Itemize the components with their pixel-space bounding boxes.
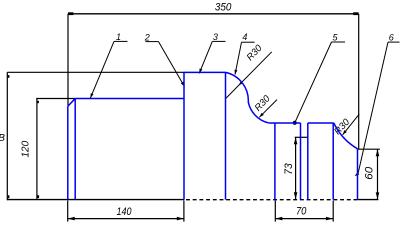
dimension 70 line (275, 218, 333, 220)
dimension 350 left tick (68, 12, 73, 15)
leader 3 line (199, 41, 212, 73)
svg-text:120: 120 (21, 140, 32, 157)
dimension 70 right arrow (326, 217, 333, 221)
dimension 60 top arrow (376, 149, 380, 156)
radius R30 third leader line (343, 114, 360, 135)
leader 3 arrow (199, 68, 202, 73)
dimension 140 left extension line (67, 201, 69, 222)
profile divider at first arc start (225, 72, 227, 199)
dimension 150 vertical line at left edge (6, 72, 8, 200)
svg-text:B: B (0, 133, 5, 144)
leader 1 shelf (114, 40, 128, 42)
svg-text:6: 6 (389, 32, 394, 42)
profile S-curve R30 arcs (226, 72, 269, 123)
radius R30 second label (253, 93, 273, 114)
dimension 150 top extension line (7, 71, 184, 73)
dimension 60 label (363, 166, 375, 180)
leader 6 line (358, 42, 388, 175)
profile divider at second arc start (332, 123, 334, 200)
leader 4 shelf (242, 41, 255, 43)
dimension 73 line (295, 137, 297, 199)
profile slot right wall (307, 123, 309, 200)
dimension 70 left arrow (275, 217, 282, 221)
svg-text:350: 350 (215, 1, 232, 13)
radius R30 second arrow (259, 113, 264, 118)
base line solid right under end block (358, 199, 379, 201)
svg-text:73: 73 (283, 162, 295, 174)
leader 1 line (90, 41, 114, 98)
svg-text:4: 4 (242, 32, 247, 42)
profile step 1 top surface (75, 98, 184, 100)
leader 4 arrow (235, 70, 238, 75)
svg-text:2: 2 (144, 33, 150, 43)
svg-text:1: 1 (116, 32, 121, 42)
profile step 2 top surface (184, 71, 226, 73)
dimension 60 line (377, 149, 379, 199)
base line solid left (7, 199, 184, 201)
leader 2 arrow (181, 82, 185, 87)
dimension 140 line (68, 218, 184, 220)
dimension 73 top arrow (294, 137, 298, 144)
leader 5 line (295, 42, 332, 123)
radius R30 second leader line (259, 100, 277, 118)
leader 4 line (235, 42, 242, 74)
dimension 120 top extension line (36, 98, 75, 100)
dimension 140 right extension line (183, 201, 185, 222)
profile right end face (357, 149, 359, 200)
dimension 120 line (36, 98, 38, 199)
radius R30 first leader line (226, 52, 272, 99)
profile step 3 top surface left part (269, 122, 301, 124)
profile divider after S-curve (274, 123, 276, 200)
profile concave arc R30 to end step (334, 123, 358, 149)
radius R30 first arrow (239, 81, 243, 86)
svg-text:3: 3 (213, 32, 218, 42)
dimension 73 bottom arrow (294, 192, 298, 199)
svg-text:R30: R30 (245, 42, 265, 63)
dimension 60 top extension line (358, 148, 380, 150)
dimension 120 label (21, 140, 32, 157)
leader 3 shelf (212, 40, 225, 42)
leader 2 line (159, 42, 185, 87)
dimension 70 right extension line (332, 201, 334, 222)
radius R30 third arrow (343, 130, 347, 135)
dimension 150 top tick (8, 75, 10, 78)
leader 2 shelf (146, 41, 159, 43)
leader 6 shelf (388, 41, 400, 43)
dimension 350 line (68, 13, 359, 15)
svg-text:70: 70 (296, 206, 307, 218)
dimension 120 top tick (37, 101, 39, 103)
leader 5 dot (293, 121, 297, 125)
profile step 2 left face (183, 72, 185, 199)
dimension 140 left arrow (68, 217, 75, 221)
dimension 350 left extension line (67, 14, 69, 106)
dimension 350 right extension line (358, 14, 360, 149)
svg-text:60: 60 (363, 166, 375, 180)
svg-text:5: 5 (332, 32, 338, 42)
dimension 73 label (283, 162, 295, 174)
profile slot left wall (300, 123, 302, 200)
dimension 350 right tick (353, 12, 358, 15)
svg-text:140: 140 (117, 206, 133, 218)
dimension 150 bottom tick (8, 195, 10, 198)
svg-text:R30: R30 (253, 93, 273, 114)
profile step 3 top surface right part (308, 122, 334, 124)
leader 1 arrow (90, 93, 93, 98)
dimension 70 left extension line (274, 201, 276, 222)
leader 6 arrow (355, 172, 360, 176)
profile chamfer at left end (68, 99, 75, 107)
profile left end face (67, 106, 69, 199)
leader 5 shelf (332, 41, 346, 43)
base centerline dashed (186, 199, 358, 201)
radius R30 first label (245, 42, 265, 63)
dimension 60 bottom arrow (376, 192, 380, 199)
radius R30 third label (332, 116, 352, 137)
dimension 120 bottom tick (37, 195, 39, 198)
dimension 140 right arrow (177, 217, 184, 221)
profile chamfer edge line (74, 99, 76, 200)
dimension 73 top extension line (295, 136, 309, 138)
